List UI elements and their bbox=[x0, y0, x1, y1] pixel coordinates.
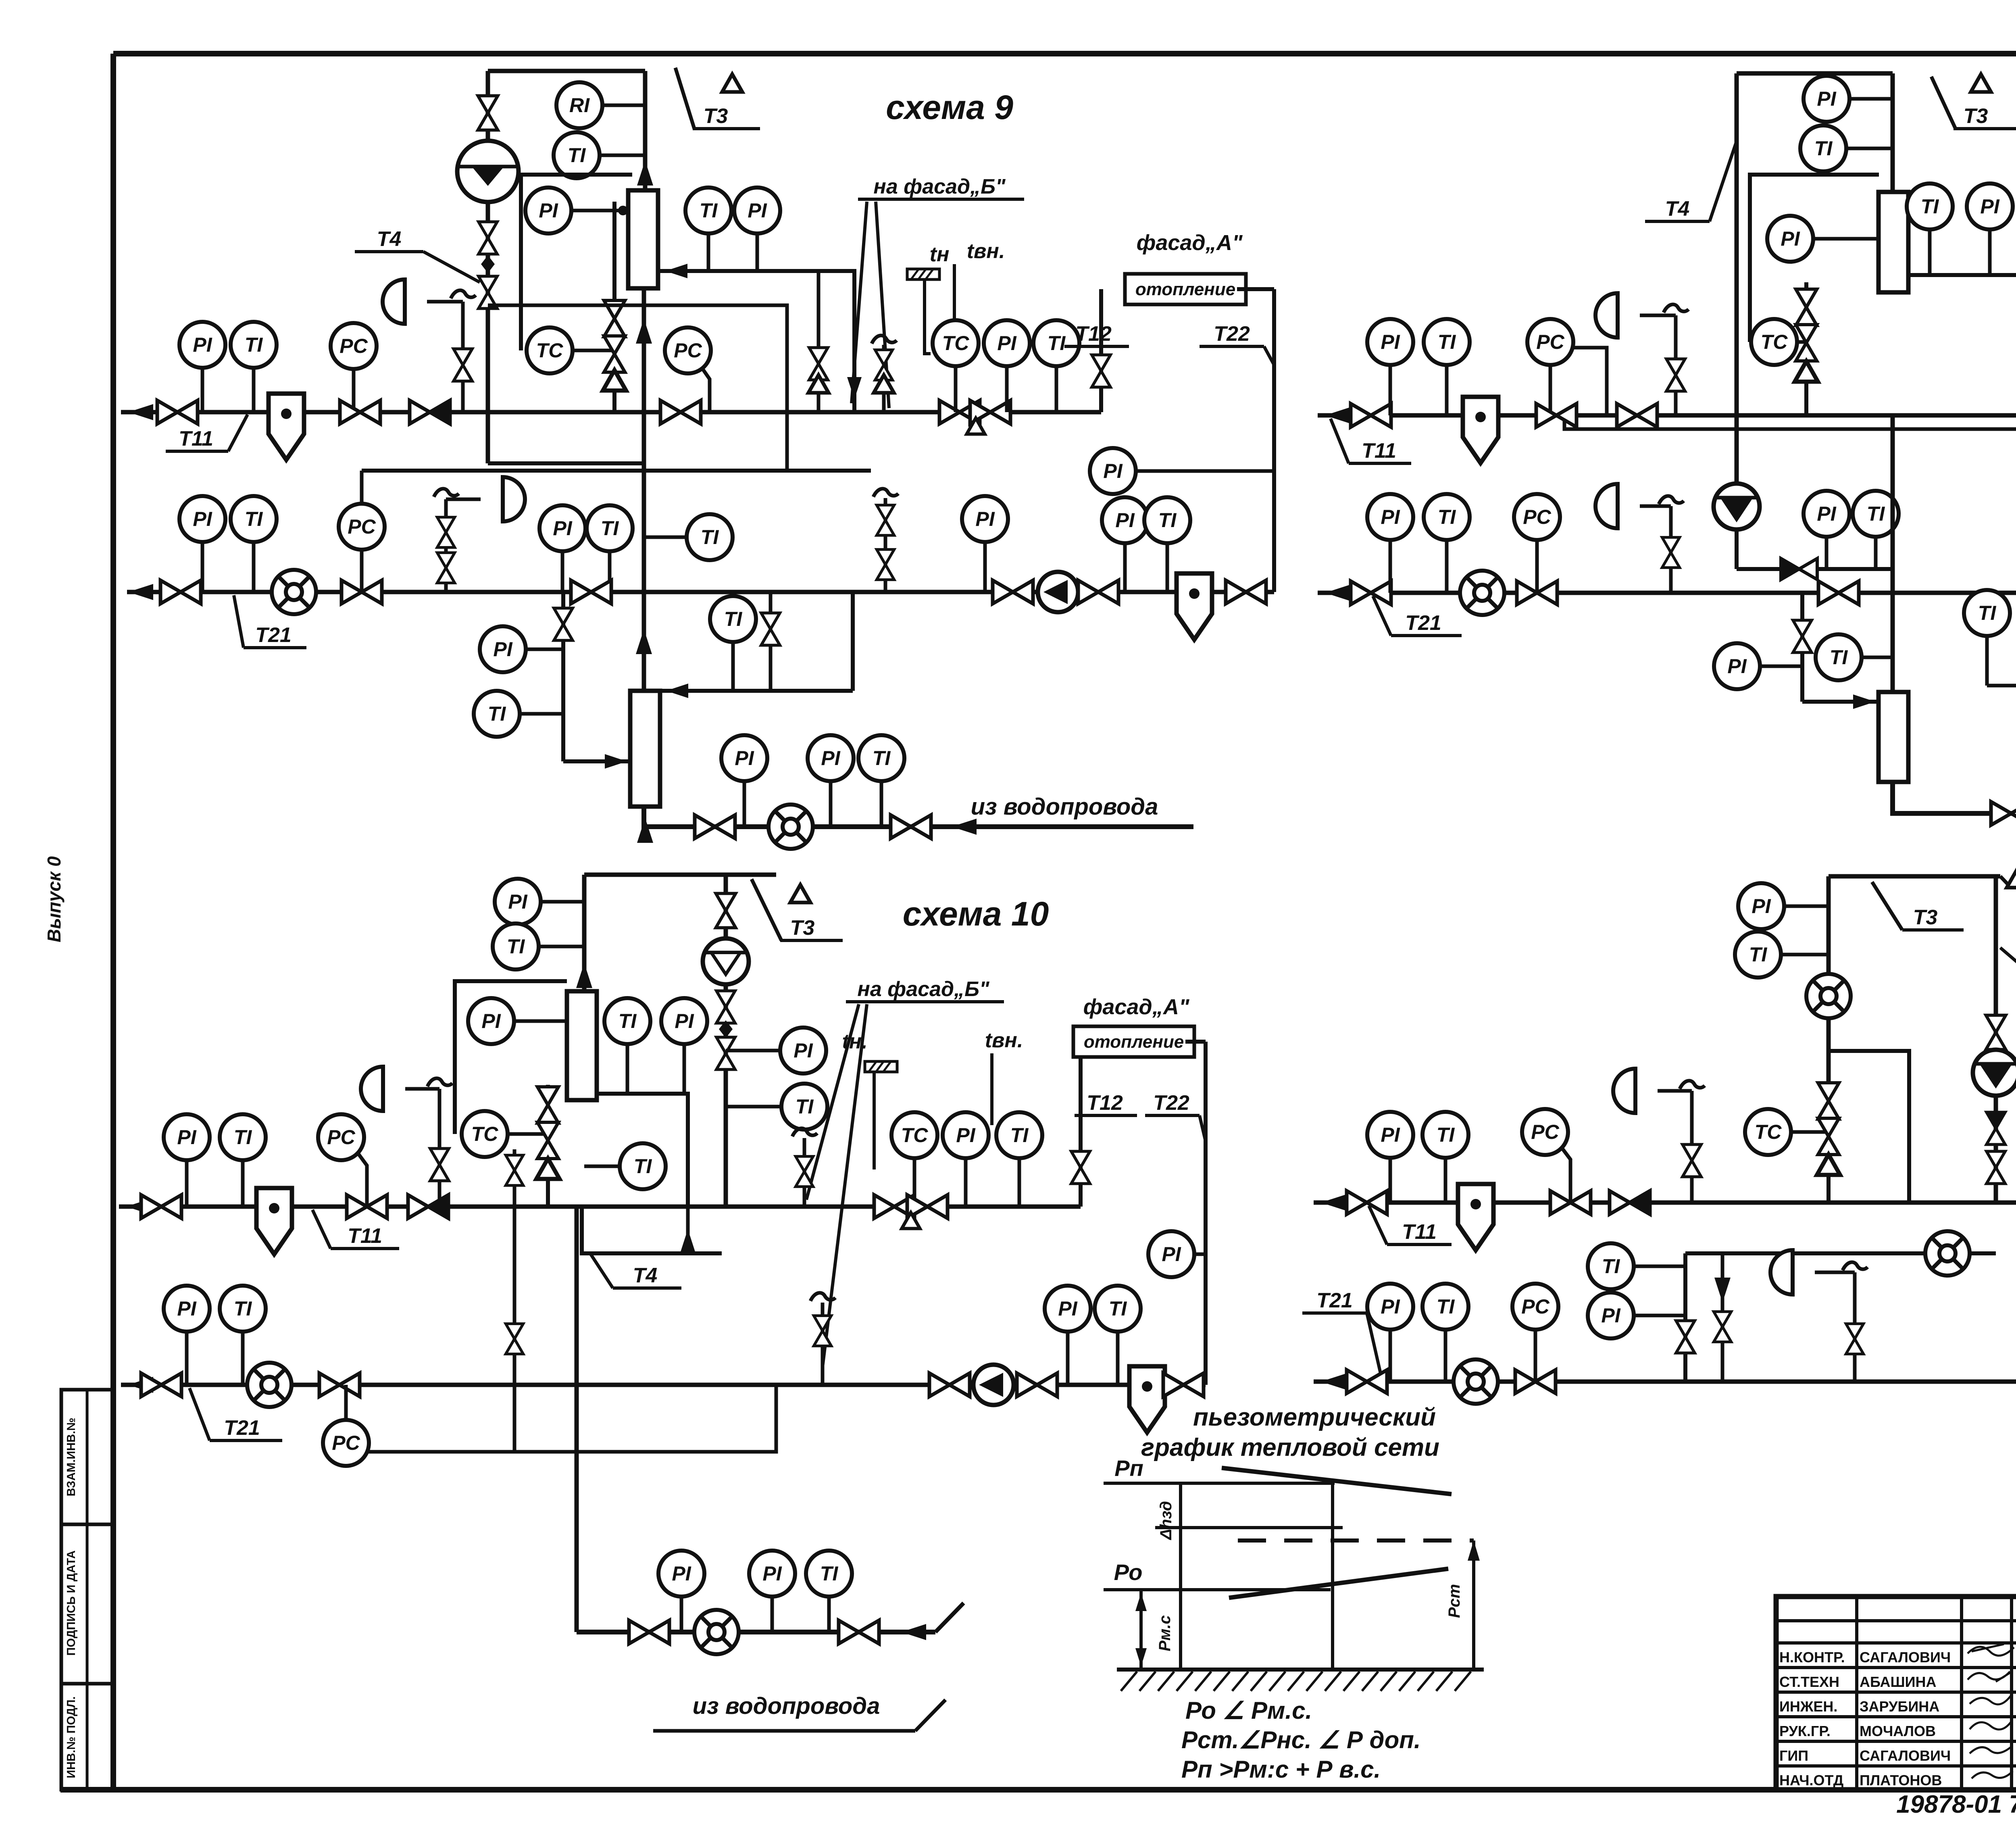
schema9 fasadB supply tap bbox=[882, 345, 886, 412]
schema12 supply inlet arrow bbox=[1321, 1194, 1346, 1211]
svg-text:Т22: Т22 bbox=[1214, 322, 1250, 346]
schema9 TI return bbox=[231, 496, 277, 542]
schema9 heating riser bbox=[1099, 289, 1103, 412]
schema11 T11 leader bbox=[1331, 419, 1349, 463]
schema10 supply valve 2 bbox=[347, 1195, 387, 1218]
schema12 TI top bbox=[1735, 932, 1781, 978]
schema10 HE1 outlet line bbox=[597, 1094, 688, 1207]
schema12 label T3 bbox=[1902, 906, 1964, 930]
svg-text:PI: PI bbox=[1817, 502, 1836, 525]
schema11 regulator actuator bbox=[1595, 293, 1618, 338]
schema9 control valve b bbox=[604, 336, 625, 372]
svg-text:TI: TI bbox=[1048, 332, 1066, 354]
schema10 PI after pump bbox=[1045, 1286, 1091, 1332]
schema9 riser A check diamond bbox=[481, 255, 495, 273]
schema10 water pipe bbox=[577, 1630, 935, 1634]
schema9 actuator link bbox=[427, 300, 463, 304]
schema9 T21 leader bbox=[234, 595, 244, 648]
schema10 return riser right bbox=[1204, 1042, 1208, 1385]
svg-text:PC: PC bbox=[327, 1126, 355, 1149]
schema10 control loop lines bbox=[455, 981, 567, 1134]
schema9 PC return stem down bbox=[360, 550, 364, 592]
svg-text:TI: TI bbox=[1830, 646, 1848, 669]
schema10 TI right of HE1 bbox=[604, 998, 650, 1044]
svg-text:МОЧАЛОВ: МОЧАЛОВ bbox=[1860, 1723, 1936, 1739]
schema12 return pipe T21 bbox=[1314, 1380, 2016, 1384]
schema9 impulse loop a bbox=[362, 469, 871, 473]
schema9 supply valve 1 bbox=[157, 400, 198, 424]
schema10 tn sensor line bbox=[873, 1072, 876, 1169]
schema10 control valve outlet triangle bbox=[536, 1159, 560, 1179]
frame left edge bbox=[110, 54, 116, 1790]
schema10 elevator valve top bbox=[716, 894, 735, 928]
svg-text:TI: TI bbox=[1921, 195, 1939, 218]
schema12 TI bypass link bbox=[1634, 1265, 1685, 1268]
schema10 three-way tee bbox=[902, 1213, 920, 1229]
schema11 PC return bbox=[1514, 494, 1560, 540]
schema10 tn sensor box bbox=[865, 1061, 897, 1072]
schema10 water meter bbox=[694, 1610, 739, 1654]
schema10 actuator link bbox=[405, 1087, 439, 1091]
schema9 HE2 bottom arrow bbox=[637, 818, 653, 843]
schema10 above stub valve bbox=[506, 1155, 523, 1186]
schema10 PI top bbox=[495, 879, 541, 925]
svg-text:Т21: Т21 bbox=[1405, 611, 1441, 635]
schema9 HE1 outlet line bbox=[658, 271, 854, 412]
svg-text:график тепловой сети: график тепловой сети bbox=[1141, 1434, 1439, 1461]
svg-text:TI: TI bbox=[1437, 1124, 1455, 1146]
schema9 fasadB supply valve bbox=[875, 350, 893, 380]
svg-text:PI: PI bbox=[672, 1562, 691, 1585]
schema9 fasadB return valve 2 bbox=[877, 550, 894, 580]
schema11 water meter return bbox=[1460, 571, 1504, 615]
schema12 T3 vent triangle bbox=[2007, 870, 2016, 888]
schema11 under-pipe impulse line bbox=[1564, 415, 2016, 429]
schema11 label T11 bbox=[1349, 439, 1411, 463]
svg-text:на фасад„Б": на фасад„Б" bbox=[873, 175, 1006, 198]
schema10 elevator valve mid bbox=[716, 991, 735, 1023]
svg-text:TI: TI bbox=[1438, 506, 1456, 528]
schema10 heating riser bbox=[1079, 1057, 1083, 1207]
svg-text:TI: TI bbox=[1158, 509, 1177, 532]
schema11 return pipe T21 bbox=[1318, 591, 2016, 595]
svg-text:Т12: Т12 bbox=[1087, 1091, 1123, 1115]
schema10 return pipe T21 bbox=[121, 1383, 1206, 1387]
schema9 return valve 4 bbox=[993, 580, 1033, 604]
svg-text:PI: PI bbox=[177, 1126, 196, 1149]
svg-text:PI: PI bbox=[1103, 460, 1123, 482]
schema10 return valve 3 bbox=[929, 1373, 970, 1397]
schema9 PI HE1 link bbox=[571, 209, 628, 213]
schema9 PI far right link bbox=[1136, 469, 1274, 473]
schema9 return valve 3 bbox=[571, 580, 611, 604]
svg-text:Т4: Т4 bbox=[1665, 197, 1690, 221]
schema9 HE1 tap dot bbox=[618, 206, 628, 215]
schema12 top header line bbox=[1829, 874, 2000, 879]
schema10 PI return bbox=[164, 1286, 210, 1332]
schema10 return valve 5 bbox=[1163, 1373, 1204, 1397]
svg-text:TI: TI bbox=[701, 526, 719, 548]
schema10 PC return stem bbox=[344, 1385, 348, 1420]
svg-text:Т4: Т4 bbox=[377, 227, 402, 251]
schema12 elevator valve top bbox=[1986, 1015, 2006, 1050]
frame top edge bbox=[113, 51, 2016, 56]
schema9 tvn sensor line bbox=[953, 264, 956, 321]
svg-text:TI: TI bbox=[634, 1155, 652, 1178]
schema9 fasadB return valve 1 bbox=[877, 505, 894, 536]
schema10 elevator check diamond bbox=[719, 1020, 733, 1038]
schema11 return vent curl bbox=[1659, 496, 1684, 504]
schema10 PI at elevator bbox=[780, 1028, 826, 1074]
schema11 TI return bbox=[1424, 494, 1470, 540]
schema10 riser A arrow bbox=[576, 963, 592, 988]
piezo ground hatching bbox=[1121, 1672, 1471, 1691]
schema11 PI stem bbox=[1988, 229, 1992, 275]
schema9 PC right bbox=[665, 327, 711, 373]
svg-text:Т3: Т3 bbox=[1964, 104, 1988, 128]
schema12 PI bypass bbox=[1588, 1292, 1634, 1338]
schema12 PI bypass link bbox=[1634, 1314, 1685, 1317]
svg-text:Рст: Рст bbox=[1445, 1584, 1463, 1618]
svg-text:PI: PI bbox=[735, 747, 754, 769]
schema11 PC elbow link bbox=[1572, 348, 1607, 415]
schema12 regulator valve bbox=[1683, 1144, 1701, 1177]
schema10 heating riser valve bbox=[1071, 1151, 1090, 1184]
schema10 TI mid link bbox=[584, 1165, 620, 1168]
piezo dim arrow top bbox=[1135, 1593, 1147, 1611]
title block outer frame bbox=[1776, 1597, 2016, 1790]
schema10 supply valve 4 bbox=[874, 1195, 914, 1218]
svg-text:TI: TI bbox=[507, 935, 525, 958]
schema9 TC controller bbox=[527, 327, 573, 373]
schema9 TI ap stem bbox=[1166, 543, 1169, 592]
schema9 label T4 bbox=[355, 227, 480, 282]
schema10 water flow arrow bbox=[901, 1624, 926, 1640]
schema9 water valve 2 bbox=[891, 815, 931, 838]
schema9 PI after pump bbox=[1102, 497, 1148, 543]
schema10 TC right bbox=[891, 1112, 937, 1158]
schema10 PI top link bbox=[541, 900, 584, 904]
schema9 TI top link bbox=[600, 154, 645, 157]
schema10 PI far right link bbox=[1194, 1253, 1206, 1256]
schema10 PI stem r bbox=[964, 1158, 968, 1207]
schema10 fasadB return valve bbox=[814, 1316, 831, 1346]
schema12 PI gauge bbox=[1367, 1112, 1413, 1158]
svg-text:САГАЛОВИЧ: САГАЛОВИЧ bbox=[1860, 1747, 1951, 1764]
schema12 T3 leader bbox=[1872, 882, 1902, 930]
svg-text:отопление: отопление bbox=[1135, 279, 1235, 299]
schema10 TC link bbox=[508, 1132, 548, 1136]
schema10 TI return stem bbox=[241, 1332, 245, 1385]
svg-text:TI: TI bbox=[1010, 1124, 1029, 1147]
schema11 return valve 3 bbox=[1818, 581, 1859, 605]
svg-text:TI: TI bbox=[1814, 137, 1833, 160]
schema11 supply valve 2 bbox=[1536, 404, 1577, 427]
svg-text:TI: TI bbox=[1602, 1255, 1620, 1278]
svg-text:tвн.: tвн. bbox=[967, 240, 1005, 263]
schema10 PI right of HE1 bbox=[661, 998, 707, 1044]
svg-text:TI: TI bbox=[820, 1562, 839, 1585]
schema12 supply pipe T11 bbox=[1314, 1201, 2016, 1205]
schema11 PI at HE1 bbox=[1767, 216, 1813, 262]
schema10 PI gauge bbox=[164, 1114, 210, 1160]
svg-text:фасад„А": фасад„А" bbox=[1137, 231, 1243, 255]
schema11 PI gauge bbox=[1367, 319, 1413, 365]
schema10 TI right supply bbox=[996, 1112, 1042, 1158]
piezo Rmc dim line bbox=[1139, 1590, 1143, 1670]
schema11 TI stem bbox=[1928, 229, 1932, 275]
schema11 TI gauge bbox=[1424, 319, 1470, 365]
svg-text:TI: TI bbox=[234, 1297, 252, 1320]
svg-text:TI: TI bbox=[245, 508, 263, 530]
schema10 water meter return bbox=[247, 1363, 292, 1407]
schema11 vent curl bbox=[1664, 304, 1689, 313]
schema9 PI water 2 bbox=[808, 735, 854, 781]
schema10 label na fasad B bbox=[846, 978, 1004, 1002]
schema9 PI at HE2 bbox=[480, 626, 526, 672]
schema11 elevator bbox=[1714, 484, 1760, 529]
schema11 PI injection bbox=[1804, 491, 1849, 537]
svg-text:TI: TI bbox=[1438, 331, 1456, 353]
schema9 water flow arrow bbox=[952, 819, 977, 835]
svg-text:Ро: Ро bbox=[1114, 1559, 1143, 1585]
schema9 PI return stem bbox=[201, 542, 204, 592]
piezo supply pressure line bbox=[1222, 1468, 1452, 1494]
schema9 T3 leader bbox=[675, 68, 694, 129]
schema9 return valve 5 bbox=[1078, 580, 1118, 604]
schema9 outlet valve bbox=[809, 348, 828, 380]
schema11 PI top bbox=[1804, 76, 1849, 122]
svg-text:ИНВ.№ ПОДЛ.: ИНВ.№ ПОДЛ. bbox=[65, 1696, 78, 1778]
schema10 fasadB supply curl bbox=[792, 1128, 817, 1136]
schema11 regulator stem bbox=[1674, 315, 1678, 415]
schema10 TC controller bbox=[462, 1111, 508, 1157]
schema10 label T4 bbox=[613, 1264, 681, 1288]
schema11 water pipe bbox=[1893, 782, 2016, 813]
svg-text:tн: tн bbox=[930, 243, 950, 266]
schema10 label T21 bbox=[210, 1416, 282, 1440]
svg-text:TI: TI bbox=[234, 1126, 252, 1149]
schema9 PI far right bbox=[1090, 448, 1136, 494]
schema11 PC return stem bbox=[1535, 540, 1539, 593]
piezo return pressure line bbox=[1229, 1569, 1448, 1598]
schema10 fasadB return tap bbox=[821, 1303, 825, 1385]
schema10 elevator bbox=[703, 938, 749, 984]
schema11 control valve a bbox=[1796, 289, 1817, 325]
svg-text:TI: TI bbox=[568, 144, 586, 167]
schema11 TI top bbox=[1800, 125, 1846, 171]
schema12 TI top link bbox=[1781, 953, 1829, 957]
schema9 return reg valve 2 bbox=[437, 553, 455, 583]
schema10 PI w2 stem bbox=[771, 1597, 774, 1632]
schema10 mud trap return bbox=[1129, 1366, 1165, 1432]
svg-text:RI: RI bbox=[569, 94, 590, 117]
schema11 PI at HE2 bbox=[1714, 643, 1760, 689]
schema10 TI gauge bbox=[220, 1114, 266, 1160]
schema9 fasadB return tap bbox=[884, 498, 887, 592]
schema9 water meter return bbox=[272, 570, 316, 614]
schema9 PC controller bbox=[331, 323, 377, 369]
schema10 PI at HE1 bbox=[468, 998, 514, 1044]
svg-text:TI: TI bbox=[1437, 1295, 1455, 1318]
schema10 otoplenie box bbox=[1073, 1026, 1194, 1057]
schema10 water valve 1 bbox=[629, 1620, 669, 1644]
schema9 heat exchanger 2 bbox=[630, 691, 660, 807]
schema9 TI after pump bbox=[1144, 497, 1190, 543]
schema9 circulation pump bbox=[1038, 572, 1078, 612]
schema10 PI water 1 bbox=[658, 1551, 704, 1597]
schema9 HE1 outlet arrow bbox=[665, 264, 687, 278]
schema9 heating riser valve bbox=[1092, 355, 1110, 387]
svg-text:PI: PI bbox=[1752, 895, 1771, 917]
schema9 HE2 inlet arrow bbox=[605, 754, 627, 769]
schema10 iz vodoprovoda tick bbox=[915, 1700, 946, 1731]
schema12 riser A bbox=[1826, 876, 1831, 1082]
schema11 T3 vent triangle bbox=[1971, 74, 1991, 92]
schema11 T21 leader bbox=[1373, 596, 1391, 636]
schema9 TC right bbox=[933, 320, 979, 366]
schema10 fasadB supply tap bbox=[803, 1138, 806, 1207]
schema10 vent curl bbox=[427, 1078, 452, 1086]
svg-text:PI: PI bbox=[956, 1124, 975, 1147]
schema9 water pipe bbox=[644, 807, 1193, 827]
svg-text:СТ.ТЕХН: СТ.ТЕХН bbox=[1779, 1674, 1839, 1690]
schema10 mid riser arrow bbox=[680, 1229, 696, 1254]
schema12 T21 leader bbox=[1367, 1313, 1383, 1384]
schema9 PI mid bbox=[539, 505, 585, 551]
svg-text:Н.КОНТР.: Н.КОНТР. bbox=[1779, 1649, 1845, 1666]
schema11 PC controller bbox=[1527, 319, 1573, 365]
schema11 HE2 cold valve bbox=[1793, 620, 1812, 652]
schema10 supply valve 1 bbox=[141, 1195, 181, 1218]
schema11 return valve 1 bbox=[1351, 581, 1391, 605]
svg-text:TI: TI bbox=[873, 747, 891, 769]
schema11 T4 leader bbox=[1710, 141, 1737, 221]
svg-text:TC: TC bbox=[1755, 1121, 1782, 1143]
schema9 TI right supply bbox=[1033, 320, 1079, 366]
schema12 PI return stem bbox=[1389, 1330, 1392, 1382]
piezo dh level line bbox=[1155, 1526, 1343, 1529]
schema9 return actuator link bbox=[446, 498, 481, 501]
piezo Rp level line bbox=[1104, 1482, 1335, 1485]
svg-text:схема 9: схема 9 bbox=[886, 88, 1013, 126]
schema9 tn sensor box bbox=[907, 269, 939, 279]
schema12 PI stem bbox=[1389, 1158, 1392, 1203]
schema12 PC controller bbox=[1522, 1109, 1568, 1155]
schema12 PC stem bbox=[1561, 1147, 1570, 1203]
schema9 riser B up arrow bbox=[637, 161, 653, 186]
schema9 riser A valve 2 bbox=[479, 222, 497, 254]
schema11 control valve b bbox=[1796, 325, 1817, 361]
schema12 regulator actuator bbox=[1613, 1069, 1635, 1113]
schema10 supply pipe T11 bbox=[119, 1205, 1081, 1209]
svg-text:PI: PI bbox=[493, 638, 512, 661]
schema12 control valve outlet triangle bbox=[1817, 1155, 1840, 1175]
schema11 T3 leader bbox=[1931, 77, 1956, 129]
schema9 PI bp stem bbox=[983, 542, 987, 592]
schema9 three-way tee bbox=[967, 418, 985, 434]
svg-text:Т3: Т3 bbox=[704, 104, 728, 128]
schema9 return vent curl bbox=[434, 489, 459, 497]
schema9 mud trap T11 bbox=[269, 394, 304, 460]
svg-text:Т22: Т22 bbox=[1153, 1091, 1189, 1115]
schema10 PC stem bbox=[357, 1152, 367, 1207]
schema10 control valve b bbox=[537, 1122, 558, 1159]
schema10 label T3 bbox=[780, 916, 843, 940]
svg-text:PI: PI bbox=[793, 1039, 813, 1062]
schema12 actuator link bbox=[1658, 1089, 1692, 1093]
schema11 TI top link bbox=[1846, 147, 1893, 150]
schema9 regulator stem bbox=[461, 302, 465, 412]
schema11 PI stem bbox=[1389, 365, 1392, 415]
schema11 label T21 bbox=[1391, 611, 1462, 636]
schema11 regulator valve bbox=[1666, 359, 1685, 391]
schema12 return actuator link bbox=[1815, 1271, 1855, 1274]
svg-text:PI: PI bbox=[553, 517, 572, 540]
schema11 top header line bbox=[1737, 71, 1893, 76]
svg-text:ВЗАМ.ИНВ.№: ВЗАМ.ИНВ.№ bbox=[65, 1418, 78, 1497]
schema9 impulse loop b bbox=[488, 461, 643, 465]
schema10 TI stem bbox=[241, 1160, 245, 1207]
schema10 riser A bbox=[582, 875, 587, 991]
svg-text:PI: PI bbox=[1980, 195, 1999, 218]
svg-text:PI: PI bbox=[821, 747, 840, 769]
schema10 return valve 2 bbox=[319, 1373, 360, 1397]
schema10 TI elev link bbox=[726, 1105, 781, 1109]
schema9 PI right supply bbox=[984, 320, 1030, 366]
svg-text:PC: PC bbox=[1531, 1121, 1559, 1143]
schema10 control valve a bbox=[537, 1087, 558, 1123]
schema11 label T4 bbox=[1645, 197, 1710, 221]
schema9 T3 vent triangle bbox=[722, 74, 742, 92]
svg-text:ЗАРУБИНА: ЗАРУБИНА bbox=[1860, 1698, 1939, 1715]
schema11 actuator link bbox=[1640, 314, 1676, 317]
schema9 mud trap return bbox=[1177, 573, 1212, 640]
schema9 water valve 1 bbox=[695, 815, 735, 838]
schema11 water valve 1 bbox=[1991, 802, 2016, 825]
schema11 PI inj stem bbox=[1825, 537, 1829, 569]
schema10 PI far right bbox=[1148, 1231, 1194, 1277]
frame bottom edge bbox=[60, 1787, 2016, 1793]
schema9 fasadB supply curl bbox=[872, 336, 897, 344]
svg-text:PI: PI bbox=[1381, 506, 1400, 528]
piezo axis mid bbox=[1331, 1483, 1334, 1670]
svg-text:ПОДПИСЬ И ДАТА: ПОДПИСЬ И ДАТА bbox=[65, 1550, 78, 1655]
schema10 fasadB leader 2 bbox=[823, 1004, 867, 1367]
schema10 PC return link bbox=[368, 1385, 776, 1452]
schema11 return actuator link bbox=[1640, 504, 1671, 508]
schema9 return valve 6 bbox=[1226, 580, 1266, 604]
svg-text:схема 10: схема 10 bbox=[903, 895, 1049, 933]
svg-text:TC: TC bbox=[536, 339, 564, 362]
svg-text:Т3: Т3 bbox=[790, 916, 815, 940]
schema12 elevator valve low bbox=[1987, 1151, 2005, 1184]
schema10 supply check valve bbox=[408, 1195, 448, 1218]
schema9 PI at HE1 bbox=[525, 188, 571, 233]
schema11 TI inj stem bbox=[1874, 537, 1878, 569]
schema9 PI stem bbox=[756, 233, 759, 271]
schema12 return vent curl bbox=[1843, 1262, 1868, 1270]
schema9 HE2 cold inlet bbox=[563, 759, 630, 763]
svg-text:фасад„А": фасад„А" bbox=[1083, 995, 1190, 1019]
schema9 PC right stem bbox=[702, 369, 710, 412]
schema9 return regulator actuator bbox=[503, 477, 525, 521]
svg-text:PC: PC bbox=[674, 339, 702, 362]
schema11 HE2 cold riser bbox=[1800, 593, 1804, 702]
schema11 supply valve 3 bbox=[1617, 404, 1657, 427]
schema10 return outlet arrow bbox=[128, 1377, 153, 1393]
schema9 HE1 bottom riser bbox=[642, 288, 646, 412]
